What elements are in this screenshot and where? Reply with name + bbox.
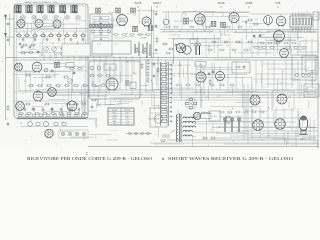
svg-text:0.05: 0.05	[298, 37, 301, 39]
value labels mid	[115, 38, 146, 40]
shielded oscillator coil (dark twin circle)	[176, 43, 191, 54]
note: band coverage heading	[24, 1, 58, 4]
band switch wafer S1b	[35, 19, 43, 27]
svg-text:12.6: 12.6	[126, 121, 129, 123]
svg-text:300: 300	[192, 104, 195, 106]
svg-text:6X5: 6X5	[276, 1, 281, 5]
svg-text:0.05: 0.05	[184, 23, 187, 25]
resistor R40	[225, 116, 231, 118]
wafer S3a	[48, 88, 57, 97]
mid filler verticals	[92, 60, 158, 86]
wire bus y100	[160, 99, 250, 101]
svg-text:Tensioni: Tensioni	[124, 110, 131, 112]
AF tube V3	[67, 100, 77, 113]
tube V9 6X5	[276, 15, 286, 27]
value labels right-top	[170, 35, 299, 37]
svg-text:0.05: 0.05	[202, 112, 205, 114]
band switch contact ladder S4	[161, 62, 173, 126]
svg-text:L.42: L.42	[199, 64, 203, 66]
wire B+ y140	[167, 139, 318, 141]
band switch wafer S1c	[53, 20, 61, 28]
svg-text:0.5: 0.5	[118, 12, 120, 14]
tube label 6AC5	[135, 1, 142, 8]
IF can T4	[131, 8, 136, 13]
capacitor C52	[126, 80, 128, 86]
IF can T2	[96, 8, 101, 13]
coil box L105	[209, 111, 220, 121]
svg-text:8: 8	[231, 88, 232, 90]
AF output tube V14	[106, 77, 118, 92]
RF coil L2	[26, 4, 33, 14]
RF coil L6	[71, 4, 78, 14]
tube V7 6SG8	[195, 12, 206, 25]
left margin parts	[7, 105, 10, 126]
tube V12	[196, 71, 206, 84]
IF can T8	[184, 18, 189, 24]
value labels right lower	[167, 62, 291, 106]
wire terminal leads	[293, 12, 310, 16]
capacitor C30	[252, 35, 256, 38]
svg-text:300: 300	[164, 109, 167, 111]
coupling parts cluster	[245, 19, 259, 25]
dial cord pulleys	[126, 132, 152, 135]
decoupling resistors row y85	[28, 85, 106, 87]
dial scale box (right)	[92, 41, 131, 54]
trimmer C3	[43, 15, 47, 19]
oscillator padder resistors row	[16, 33, 86, 39]
oscillator tube V2	[33, 90, 43, 103]
svg-text:470: 470	[288, 96, 291, 98]
white patch behind table	[97, 106, 148, 131]
resistor R19	[77, 68, 83, 70]
terminal note text	[2, 60, 4, 73]
wire lattice coil box upper	[19, 16, 86, 56]
IF transformer T6	[133, 26, 138, 32]
bottom-right filler wires	[216, 108, 301, 140]
screen resistors row	[113, 34, 151, 36]
svg-text:50: 50	[58, 87, 60, 89]
cathode resistor row y104	[25, 103, 87, 112]
svg-text:300: 300	[255, 19, 258, 21]
svg-text:0.05: 0.05	[249, 26, 252, 28]
svg-text:0.1: 0.1	[47, 46, 49, 48]
resistor R41	[225, 121, 231, 123]
value labels mid lower	[91, 66, 155, 90]
tone cluster circles	[90, 66, 101, 70]
capacitor C51	[212, 70, 215, 74]
below-box part row	[20, 122, 88, 127]
svg-text:220: 220	[143, 38, 146, 40]
filter electrolytics C60-C62	[220, 117, 243, 132]
resistor R17	[63, 76, 69, 78]
svg-text:L.105: L.105	[212, 116, 217, 118]
svg-text:0.05: 0.05	[206, 96, 209, 98]
osc trimmer T1	[44, 47, 49, 52]
label box V12	[195, 62, 206, 67]
svg-text:47K 0.1 220: 47K 0.1 220	[115, 38, 125, 40]
socket SK4	[275, 119, 286, 130]
value labels mid top	[111, 12, 146, 40]
AVC network parts	[190, 38, 253, 58]
svg-text:100: 100	[172, 75, 175, 77]
mixer grid coil	[163, 12, 169, 25]
coil-unit enclosure (chassis box)	[14, 4, 88, 118]
trimmer C2	[32, 15, 36, 19]
value labels right top	[182, 11, 313, 52]
wire lattice right top	[163, 11, 317, 54]
resistor R15	[25, 74, 31, 76]
coil-unit inner outline	[16, 6, 86, 116]
wire cluster left	[14, 71, 88, 75]
svg-text:D.16: D.16	[97, 44, 101, 46]
svg-text:6AB5: 6AB5	[246, 1, 253, 5]
tube V13	[216, 70, 225, 82]
capacitor C12	[21, 45, 24, 49]
capacitor C31	[258, 35, 262, 38]
svg-text:6AK6: 6AK6	[95, 85, 100, 88]
socket SK3	[253, 120, 264, 131]
speaker connector box	[313, 12, 319, 20]
tube label 6AB5	[246, 1, 253, 8]
resistor R18	[69, 68, 75, 70]
tube label 6SG8	[217, 1, 224, 8]
RF coil L1	[15, 4, 22, 14]
svg-text:300: 300	[22, 22, 25, 24]
socket SK1	[250, 95, 260, 105]
wire rail y28.5	[14, 28, 88, 30]
svg-text:470: 470	[259, 47, 262, 49]
resistor R14	[28, 52, 34, 54]
filter choke	[200, 112, 211, 118]
electrolytic C40	[195, 44, 197, 55]
wire lattice mid lower	[88, 63, 160, 108]
terminal strip TS1	[290, 14, 312, 34]
wire bus y90	[35, 89, 318, 91]
wire bus y95	[50, 94, 318, 96]
svg-text:0.5: 0.5	[111, 34, 113, 36]
antenna input A1/A2	[4, 14, 14, 120]
svg-text:220: 220	[31, 57, 34, 59]
resistor R12	[76, 48, 82, 50]
svg-text:0.5: 0.5	[153, 66, 155, 68]
trimmer C1	[21, 15, 25, 19]
output transformer T11	[264, 16, 273, 27]
rectifier socket	[193, 112, 201, 120]
wire lattice power area	[154, 110, 316, 146]
bus tick wires	[164, 30, 308, 33]
svg-text:★: ★	[162, 157, 165, 161]
bottom capacitor bank	[24, 108, 81, 112]
wire drops right to bus	[166, 59, 236, 95]
grid resistors row	[165, 26, 243, 28]
tube V8	[229, 11, 239, 24]
tube socket V4 base	[45, 129, 54, 138]
wire can feeds	[186, 12, 234, 16]
svg-text:SHORT WAVES RECEIVER G 209-R -: SHORT WAVES RECEIVER G 209-R - GELOSO	[168, 157, 294, 161]
wire B- y143	[150, 142, 318, 144]
svg-text:220: 220	[275, 100, 278, 102]
trimmer box right	[292, 55, 316, 80]
heater note	[145, 90, 155, 93]
wire bus AVC y57.5	[5, 57, 318, 59]
wire vertical x173.5	[173, 38, 175, 64]
svg-text:6SG8: 6SG8	[217, 1, 224, 5]
wire osc row	[18, 52, 86, 54]
svg-text:50: 50	[97, 70, 99, 72]
magic eye tube EM	[299, 116, 308, 135]
socket SK2	[277, 94, 287, 104]
left margin rail 2	[6, 14, 10, 46]
mid resistor row	[175, 84, 235, 86]
svg-text:25: 25	[169, 65, 171, 67]
trimmer C4	[54, 15, 58, 19]
wire lattice bottom left	[48, 129, 118, 144]
switch link row1	[25, 23, 80, 26]
svg-text:0.05: 0.05	[193, 11, 196, 13]
wire bus ground y60	[14, 59, 318, 61]
wire lattice coil box lower	[17, 69, 86, 116]
connector box J2	[109, 120, 121, 126]
mains switch	[171, 131, 175, 133]
tube V6 12SA7	[142, 16, 151, 28]
note above table	[113, 98, 134, 106]
switch arc S1d	[60, 51, 65, 55]
svg-text:470: 470	[133, 27, 136, 29]
svg-text:D.17: D.17	[114, 44, 118, 46]
bottom resistor bank	[18, 113, 88, 115]
crystal bridge detector	[185, 98, 197, 110]
wire vertical x151.5-153.5	[152, 6, 154, 58]
svg-text:50: 50	[276, 44, 278, 46]
wire bus y92.5	[35, 92, 318, 94]
svg-text:0.5: 0.5	[24, 81, 26, 83]
coupling capacitor bank	[135, 42, 150, 58]
wire rail y29.5	[160, 29, 318, 31]
svg-text:220: 220	[182, 13, 185, 15]
resistor R30	[209, 79, 211, 85]
nested box top right	[304, 84, 319, 97]
AF coupling box	[88, 96, 105, 111]
svg-text:0.05: 0.05	[248, 50, 251, 52]
svg-text:100: 100	[176, 140, 179, 142]
resistor R11	[68, 48, 74, 50]
electrolytic C41	[198, 43, 200, 55]
svg-text:100: 100	[297, 126, 300, 128]
resistor R32	[97, 75, 103, 77]
aux box right	[300, 41, 318, 52]
screen caps on x152	[154, 13, 158, 52]
osc section parts	[162, 43, 177, 54]
wire lower left	[14, 92, 110, 101]
svg-text:6AC5: 6AC5	[135, 1, 142, 5]
svg-text:25 W: 25 W	[228, 113, 232, 115]
bandspread trimmer box	[66, 63, 74, 68]
value labels power	[176, 112, 300, 142]
wire bus y97.5	[110, 97, 318, 99]
svg-text:6SG8: 6SG8	[112, 118, 116, 120]
value labels left box	[17, 22, 83, 125]
trimmer C5	[65, 15, 69, 19]
svg-text:50: 50	[232, 140, 234, 142]
capacitor C21	[51, 69, 54, 73]
IF can T10	[221, 22, 226, 28]
wire drops dial to bus	[94, 56, 158, 98]
resistor R10	[60, 48, 66, 50]
band selector contact ladder	[90, 14, 112, 56]
bleeder resistors	[202, 137, 216, 139]
wire bottom edge	[88, 140, 318, 148]
volume potentiometer P1	[68, 79, 73, 84]
RF coil L4	[48, 4, 55, 14]
resistor R16	[45, 76, 51, 78]
capacitor C20	[73, 71, 76, 75]
label C	[86, 152, 89, 156]
socket enclosure A	[246, 92, 268, 111]
resistor R13	[20, 52, 26, 54]
mixer tube V1a	[32, 61, 42, 73]
pilot lamp strip	[59, 130, 88, 138]
right-top filler parts	[253, 38, 312, 56]
IF transformer T5 (dark)	[55, 62, 60, 68]
svg-text:250 1M 0.05: 250 1M 0.05	[220, 35, 230, 37]
svg-text:Valvola: Valvola	[112, 110, 117, 112]
nested IF box	[302, 56, 318, 74]
switch wafer S2a	[15, 63, 23, 71]
label EAL5	[300, 138, 305, 141]
capacitor C13	[29, 45, 32, 49]
padder trimmer	[44, 68, 48, 72]
tone stack parts	[141, 59, 159, 83]
wire drop lines under coil box	[44, 54, 86, 60]
socket enclosure B	[272, 91, 294, 110]
bias resistors row	[259, 42, 297, 44]
svg-text:50: 50	[30, 120, 32, 122]
wire lattice mid-left top	[95, 9, 158, 54]
wire verticals right	[244, 84, 252, 143]
power labels	[154, 108, 167, 110]
svg-text:0.05: 0.05	[260, 140, 263, 142]
resistor R31	[89, 75, 95, 77]
voltage table	[108, 108, 134, 126]
osc box parts	[19, 42, 36, 55]
IF can T9	[211, 21, 216, 27]
rectifier box	[150, 108, 167, 127]
RF coil L5	[59, 4, 66, 14]
svg-text:8: 8	[119, 88, 120, 90]
mixer input coil row	[90, 24, 113, 32]
svg-text:12SA7: 12SA7	[153, 1, 162, 5]
wire staircase bottom right	[212, 120, 318, 147]
svg-text:470: 470	[226, 46, 229, 48]
tube label 12SA7	[153, 1, 162, 8]
svg-text:50: 50	[154, 108, 156, 110]
wire segs mid-left	[42, 64, 86, 67]
detector box	[232, 62, 250, 73]
label 6AK6	[95, 85, 100, 88]
band switch wafer S1a	[17, 19, 25, 27]
tube V11	[280, 47, 289, 59]
svg-text:470: 470	[190, 20, 193, 22]
osc trimmer T2	[52, 47, 57, 52]
svg-text:0.1 47K 100: 0.1 47K 100	[170, 35, 180, 37]
value label mid-right	[228, 113, 232, 115]
wire right edge x318	[317, 12, 319, 148]
resistor R33	[105, 75, 111, 77]
svg-text:RICEVITORE PER ONDE CORTE G 20: RICEVITORE PER ONDE CORTE G 209-R - GELO…	[27, 157, 152, 161]
wire rail y32	[160, 31, 318, 33]
choke box	[130, 82, 136, 89]
wire box bottom edge	[17, 117, 160, 119]
connector box J1	[96, 120, 106, 127]
scan grain	[4, 3, 316, 149]
inner bottom parts row	[18, 114, 84, 116]
tube V10 (shielded, dark)	[274, 29, 285, 42]
wafer S3b	[16, 102, 25, 111]
svg-text:6X5: 6X5	[113, 124, 116, 126]
capacitor C50	[208, 72, 211, 76]
wire top rail y12	[162, 12, 312, 14]
tube V5 6AC5	[117, 13, 128, 27]
padder capacitors row	[22, 38, 85, 42]
oscillator sub-box (dashed)	[40, 43, 86, 56]
IF transformer T7	[148, 26, 153, 31]
svg-text:300: 300	[301, 16, 304, 18]
power transformer T12	[176, 114, 196, 143]
wire rail y31	[14, 30, 88, 32]
wire horizontals right	[230, 118, 318, 136]
tube label 6X5	[276, 1, 281, 8]
capacitor C14	[37, 50, 40, 54]
dial scale box (left)	[62, 44, 90, 56]
svg-text:(6.3V) 0.3A: (6.3V) 0.3A	[145, 90, 155, 93]
caption text	[27, 157, 294, 161]
driver coil box L10	[104, 64, 116, 70]
IF can T3	[116, 8, 121, 13]
trimmer C6	[76, 15, 80, 19]
AF amplifier enclosure	[89, 61, 140, 99]
mains plug	[160, 135, 169, 142]
wire lattice right lower	[162, 60, 316, 108]
svg-text:0.05: 0.05	[133, 15, 136, 17]
svg-text:100: 100	[216, 131, 219, 133]
RF coil L3	[37, 4, 44, 14]
right-mid filler wires	[252, 60, 315, 94]
